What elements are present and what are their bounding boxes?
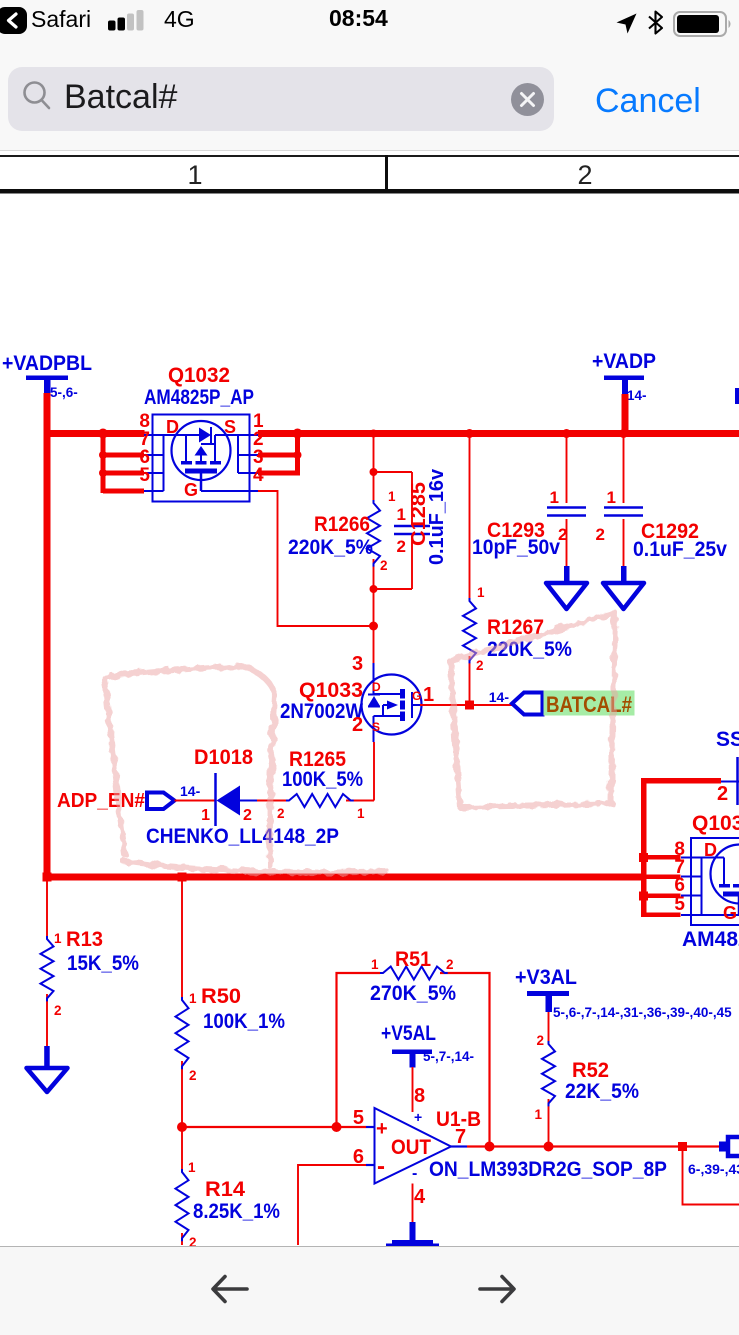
svg-text:1: 1 [54,931,62,946]
svg-text:BATCAL#: BATCAL# [546,692,632,717]
svg-text:270K_5%: 270K_5% [370,982,456,1005]
svg-text:22K_5%: 22K_5% [565,1080,639,1103]
wire: bottom horizontal bus [44,874,647,881]
svg-text:2N7002W: 2N7002W [280,700,363,723]
svg-text:ADP_EN#: ADP_EN# [57,790,145,812]
annotation: pink highlighter left region [0,0,1,1]
svg-text:AM4825P_AP: AM4825P_AP [144,386,254,409]
battery icon [673,11,733,37]
wire: R1265 to Q1033 source [373,742,375,801]
resistor R1267 [469,437,471,705]
svg-text:1: 1 [477,585,485,600]
svg-text:14-: 14- [627,388,647,403]
svg-text:+VADP: +VADP [592,350,656,373]
svg-text:5-,7-,14-: 5-,7-,14- [423,1049,474,1064]
svg-text:3: 3 [352,653,363,675]
capacitor C1293 [566,437,568,568]
svg-text:D1018: D1018 [194,746,253,769]
svg-text:+VADPBL: +VADPBL [2,352,92,375]
svg-text:OUT: OUT [391,1136,431,1159]
svg-text:6: 6 [353,1146,364,1168]
svg-text:1: 1 [188,1160,196,1175]
svg-text:8: 8 [414,1085,425,1107]
svg-text:+V3AL: +V3AL [515,966,577,989]
wire: R1266 branch [374,437,413,626]
svg-text:G: G [412,689,421,703]
svg-text:-: - [377,1153,385,1180]
wire: op-amp pin5 input [337,1126,367,1128]
svg-text:1: 1 [550,488,559,507]
svg-text:2: 2 [380,558,388,573]
svg-text:G: G [184,480,198,500]
svg-text:Q1033: Q1033 [299,679,363,702]
svg-text:Q103: Q103 [692,812,739,835]
svg-text:2: 2 [717,783,728,805]
svg-text:D: D [704,840,717,860]
svg-text:G: G [723,903,737,923]
capacitor C1285 [394,526,430,534]
back-to-app button [0,7,27,34]
wire: Q1033 gate to BATCAL# [420,704,512,706]
svg-text:S: S [224,417,236,437]
resistor R1266 [367,500,380,567]
wire: Q1032 gate trace [258,491,374,626]
svg-text:5: 5 [139,465,150,486]
svg-text:4: 4 [414,1186,426,1208]
svg-text:4: 4 [253,465,264,486]
wire: ADP_EN# to D1018 [175,800,216,802]
svg-text:R13: R13 [66,928,103,951]
svg-text:220K_5%: 220K_5% [288,536,373,559]
svg-text:1: 1 [534,1107,542,1122]
svg-text:1: 1 [189,991,197,1006]
wire: +VADP drop [622,394,629,434]
svg-text:6-,39-,43: 6-,39-,43 [688,1161,739,1177]
svg-text:D: D [166,417,179,437]
bottom toolbar [0,1246,739,1335]
resistor R14 [181,1127,183,1245]
off-page connector right (cut off) [719,1142,729,1152]
svg-text:S: S [372,720,380,734]
net label BATCAL# with search highlight [544,691,635,716]
back arrow [211,1272,249,1306]
svg-text:1: 1 [357,806,365,821]
ground for R13 [44,1046,50,1068]
search field [8,67,554,131]
ground for op-amp pin4 (bar style) [410,1222,416,1242]
svg-text:2: 2 [243,807,252,824]
svg-text:14-: 14- [180,783,201,799]
bluetooth icon [647,10,664,35]
svg-text:100K_5%: 100K_5% [282,768,363,791]
ground for C1293 [564,566,570,583]
svg-text:220K_5%: 220K_5% [487,638,572,661]
svg-text:5: 5 [674,894,685,915]
capacitor C1292 [623,437,625,568]
svg-text:+V5AL: +V5AL [381,1022,436,1045]
node: Q1032 right pin branch [258,431,300,436]
svg-text:5-,6-: 5-,6- [50,385,78,400]
status bar [0,0,739,151]
sheet border top line [0,155,739,157]
svg-text:R52: R52 [572,1059,609,1082]
svg-text:8.25K_1%: 8.25K_1% [193,1200,280,1223]
svg-text:2: 2 [476,658,484,673]
svg-text:2: 2 [352,714,363,736]
wire: op-amp pin8 power [412,1067,414,1112]
svg-text:14-: 14- [489,689,510,705]
location arrow [615,12,638,35]
svg-text:2: 2 [536,1033,544,1048]
svg-text:Q1032: Q1032 [168,364,230,387]
node: R50/R14 junction to op-amp [182,1126,337,1128]
svg-text:5: 5 [353,1107,364,1129]
wire: op-amp pin6 input [298,1165,366,1245]
svg-text:0.1uF_25v: 0.1uF_25v [633,538,727,561]
op-amp U1-B [375,1108,452,1184]
svg-text:15K_5%: 15K_5% [67,952,139,975]
svg-text:-: - [412,1165,417,1182]
svg-text:1: 1 [607,488,616,507]
svg-text:5-,6-,7-,14-,31-,36-,39-,40-,4: 5-,6-,7-,14-,31-,36-,39-,40-,45 [553,1005,732,1020]
wire: top horizontal bus right segment [258,430,739,437]
resistor R50 [181,880,183,1127]
svg-text:2: 2 [446,957,454,972]
svg-text:2: 2 [596,525,605,544]
wire: op-amp output pin7 [451,1145,467,1147]
wire: output branch down right [678,1142,687,1151]
svg-text:D: D [372,680,381,694]
svg-text:R1266: R1266 [314,513,370,536]
transistor Q1032 body [144,415,258,502]
svg-text:SS: SS [716,728,739,751]
svg-text:ON_LM393DR2G_SOP_8P: ON_LM393DR2G_SOP_8P [429,1158,667,1181]
svg-text:1: 1 [388,489,396,504]
column tick [385,155,388,193]
svg-text:100K_1%: 100K_1% [203,1010,285,1033]
svg-text:R14: R14 [205,1178,245,1201]
svg-text:2: 2 [54,1003,62,1018]
svg-text:1: 1 [397,505,406,524]
resistor R52 [548,1012,550,1147]
resistor R1265 [257,800,374,802]
svg-text:CHENKO_LL4148_2P: CHENKO_LL4148_2P [146,825,339,848]
svg-text:1: 1 [187,160,202,190]
svg-text:10pF_50v: 10pF_50v [472,536,560,559]
net label fragment right edge [735,388,739,404]
svg-text:+: + [414,1109,422,1125]
annotation: pink highlighter right region [451,613,615,661]
wire: left vertical bus +VADPBL [44,393,51,880]
clear button [510,82,545,117]
svg-text:R50: R50 [201,985,241,1008]
svg-text:AM482: AM482 [682,928,739,951]
resistor R51 [337,973,490,1147]
ground for C1292 [621,566,627,583]
svg-text:+: + [376,1118,388,1140]
wire: Q1033 drain from R1266 node [373,626,375,663]
svg-text:1: 1 [371,957,379,972]
svg-text:1: 1 [201,807,210,824]
svg-text:2: 2 [277,806,285,821]
forward arrow [478,1272,516,1306]
wire: top horizontal bus left segment [44,430,145,437]
svg-text:6: 6 [674,875,685,896]
svg-text:2: 2 [397,537,406,556]
svg-text:2: 2 [577,160,592,190]
wire: Q103x thick branch [641,778,647,917]
svg-text:1: 1 [423,684,434,706]
svg-text:2: 2 [189,1068,197,1083]
svg-text:U1-B: U1-B [436,1108,481,1131]
sheet border thick line [0,189,739,194]
magnifier icon [21,80,53,112]
svg-text:0.1uF_16v: 0.1uF_16v [426,468,448,565]
signal bars [108,10,146,31]
svg-text:R51: R51 [395,948,431,971]
wire: op-amp pin4 to ground [412,1184,414,1225]
resistor R13 [46,880,48,1048]
node: Q1032 left pin branch [101,433,106,493]
